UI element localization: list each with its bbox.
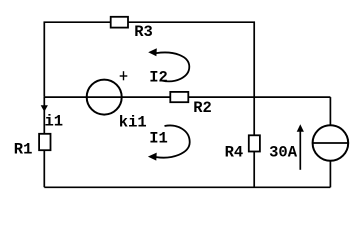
svg-text:30A: 30A <box>269 143 298 161</box>
loop current arrow I2 <box>156 52 189 81</box>
svg-text:ki1: ki1 <box>119 114 147 132</box>
svg-text:R1: R1 <box>14 141 33 159</box>
svg-text:I1: I1 <box>149 129 168 147</box>
loop current arrow I1 <box>156 125 190 157</box>
resistor R1 <box>39 134 50 150</box>
svg-text:I2: I2 <box>149 68 168 86</box>
resistor R2 <box>170 92 188 102</box>
chord of current source <box>313 142 349 144</box>
resistor R4 <box>249 135 260 151</box>
dependent source U1 (ki1) <box>87 80 122 115</box>
wire below current source <box>329 161 331 188</box>
svg-text:R3: R3 <box>134 23 153 41</box>
wire left (node A down to bottom-left corner) <box>43 97 45 188</box>
wire middle (node A to node C to node D) <box>44 96 330 98</box>
svg-text:R4: R4 <box>225 143 244 161</box>
wire bottom <box>44 186 330 188</box>
svg-text:R2: R2 <box>193 99 212 117</box>
arrow 30A (direction arrow) <box>299 128 301 170</box>
wire far-right (node D down to current source) <box>329 97 331 125</box>
wire top (node A to node B) <box>44 22 254 97</box>
current source I1s (30A) circle <box>313 125 349 161</box>
arrow i1 (current direction on left wire) <box>41 105 48 112</box>
resistor R3 <box>111 17 128 28</box>
wire right (node C down through R4 to bottom) <box>253 97 255 187</box>
svg-text:i1: i1 <box>45 112 64 130</box>
plus sign of U1 <box>120 75 128 77</box>
